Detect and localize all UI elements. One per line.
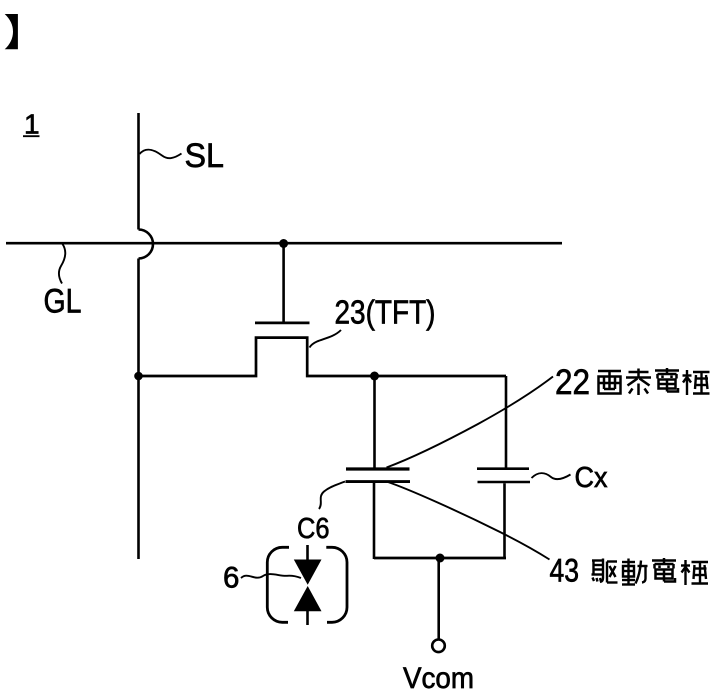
svg-text:22: 22 (555, 363, 590, 402)
wire pixel cap lower lead (373, 483, 376, 559)
wire SL hop over GL (139, 230, 153, 259)
svg-text:SL: SL (185, 137, 225, 175)
leader SL (140, 150, 182, 159)
diode D lower stub (306, 611, 309, 626)
capacitor Cx top plate (477, 467, 529, 470)
junction dot Vcom node (436, 554, 445, 563)
wire pixel cap upper lead (373, 376, 376, 468)
label 43 kanji 駆動電極 (592, 558, 709, 585)
capacitor Cx bottom plate (478, 481, 531, 484)
diode D lower (up) (294, 586, 322, 611)
protection element 6 frame right bracket (326, 547, 347, 622)
leader C6 (319, 482, 345, 510)
label 22 kanji 画素電極 (598, 368, 710, 395)
svg-text:GL: GL (44, 283, 82, 321)
wire bottom rail (374, 557, 506, 560)
node label 1 (underlined) (23, 109, 40, 140)
diode D upper stub (306, 545, 309, 561)
wire GL horizontal (gate line) (6, 242, 562, 245)
wire Cx upper lead (505, 376, 508, 468)
svg-text:Vcom: Vcom (403, 662, 474, 695)
transistor Q 23 TFT gate bar (255, 322, 310, 325)
capacitor pixel bottom plate 43 (346, 480, 411, 483)
wire SL vertical (source line) (137, 113, 140, 230)
wire Cx lower lead (503, 483, 506, 559)
leader GL (59, 244, 66, 284)
svg-text:1: 1 (24, 109, 40, 140)
leader 43 (387, 482, 550, 560)
svg-text:6: 6 (223, 562, 239, 595)
wire Vcom lead (437, 558, 440, 639)
transistor Q 23 TFT channel (139, 338, 507, 376)
diode D upper (down) (294, 560, 322, 585)
leader 22 (387, 377, 554, 468)
leader 6 (241, 574, 301, 578)
svg-text:23(TFT): 23(TFT) (335, 294, 436, 331)
wire SL vertical lower (137, 259, 140, 560)
junction dot on GL at gate lead (279, 239, 288, 248)
junction dot drain node (370, 372, 379, 381)
leader Cx (532, 473, 571, 479)
junction dot SL to pixel branch (134, 372, 143, 381)
svg-text:C6: C6 (297, 513, 330, 545)
terminal Vcom circle (432, 640, 445, 653)
leader 23(TFT) (310, 330, 342, 348)
capacitor pixel top plate 22 (346, 467, 410, 470)
svg-text:Cx: Cx (575, 462, 608, 494)
svg-text:43: 43 (550, 553, 580, 589)
figure bracket 】 (5, 14, 18, 49)
wire gate lead (282, 244, 285, 322)
protection element 6 frame left bracket (267, 547, 289, 622)
